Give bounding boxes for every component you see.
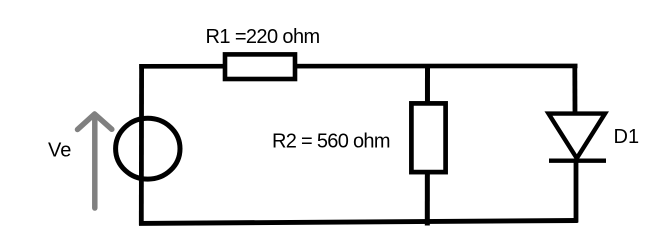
- diode D1 cathode bar: [549, 158, 606, 162]
- resistor R1: [225, 54, 295, 79]
- resistor R2: [411, 103, 445, 172]
- wire middle vertical (R2 branch): [425, 66, 430, 226]
- wire right vertical lower (from diode cathode): [574, 160, 579, 223]
- diode D1 triangle: [549, 114, 606, 159]
- wire left vertical: [139, 64, 144, 225]
- wire bottom horizontal: [139, 221, 578, 224]
- svg-text:R2 = 560 ohm: R2 = 560 ohm: [272, 130, 390, 152]
- wire right vertical upper (to diode anode): [572, 64, 577, 113]
- wire top horizontal: [139, 64, 577, 69]
- source arrow shaft (gray): [92, 115, 98, 208]
- source arrow head (gray): [78, 114, 112, 130]
- svg-text:R1 =220 ohm: R1 =220 ohm: [206, 26, 320, 48]
- svg-text:D1: D1: [614, 126, 640, 148]
- voltage source circle: [116, 118, 180, 179]
- svg-text:Ve: Ve: [48, 140, 71, 162]
